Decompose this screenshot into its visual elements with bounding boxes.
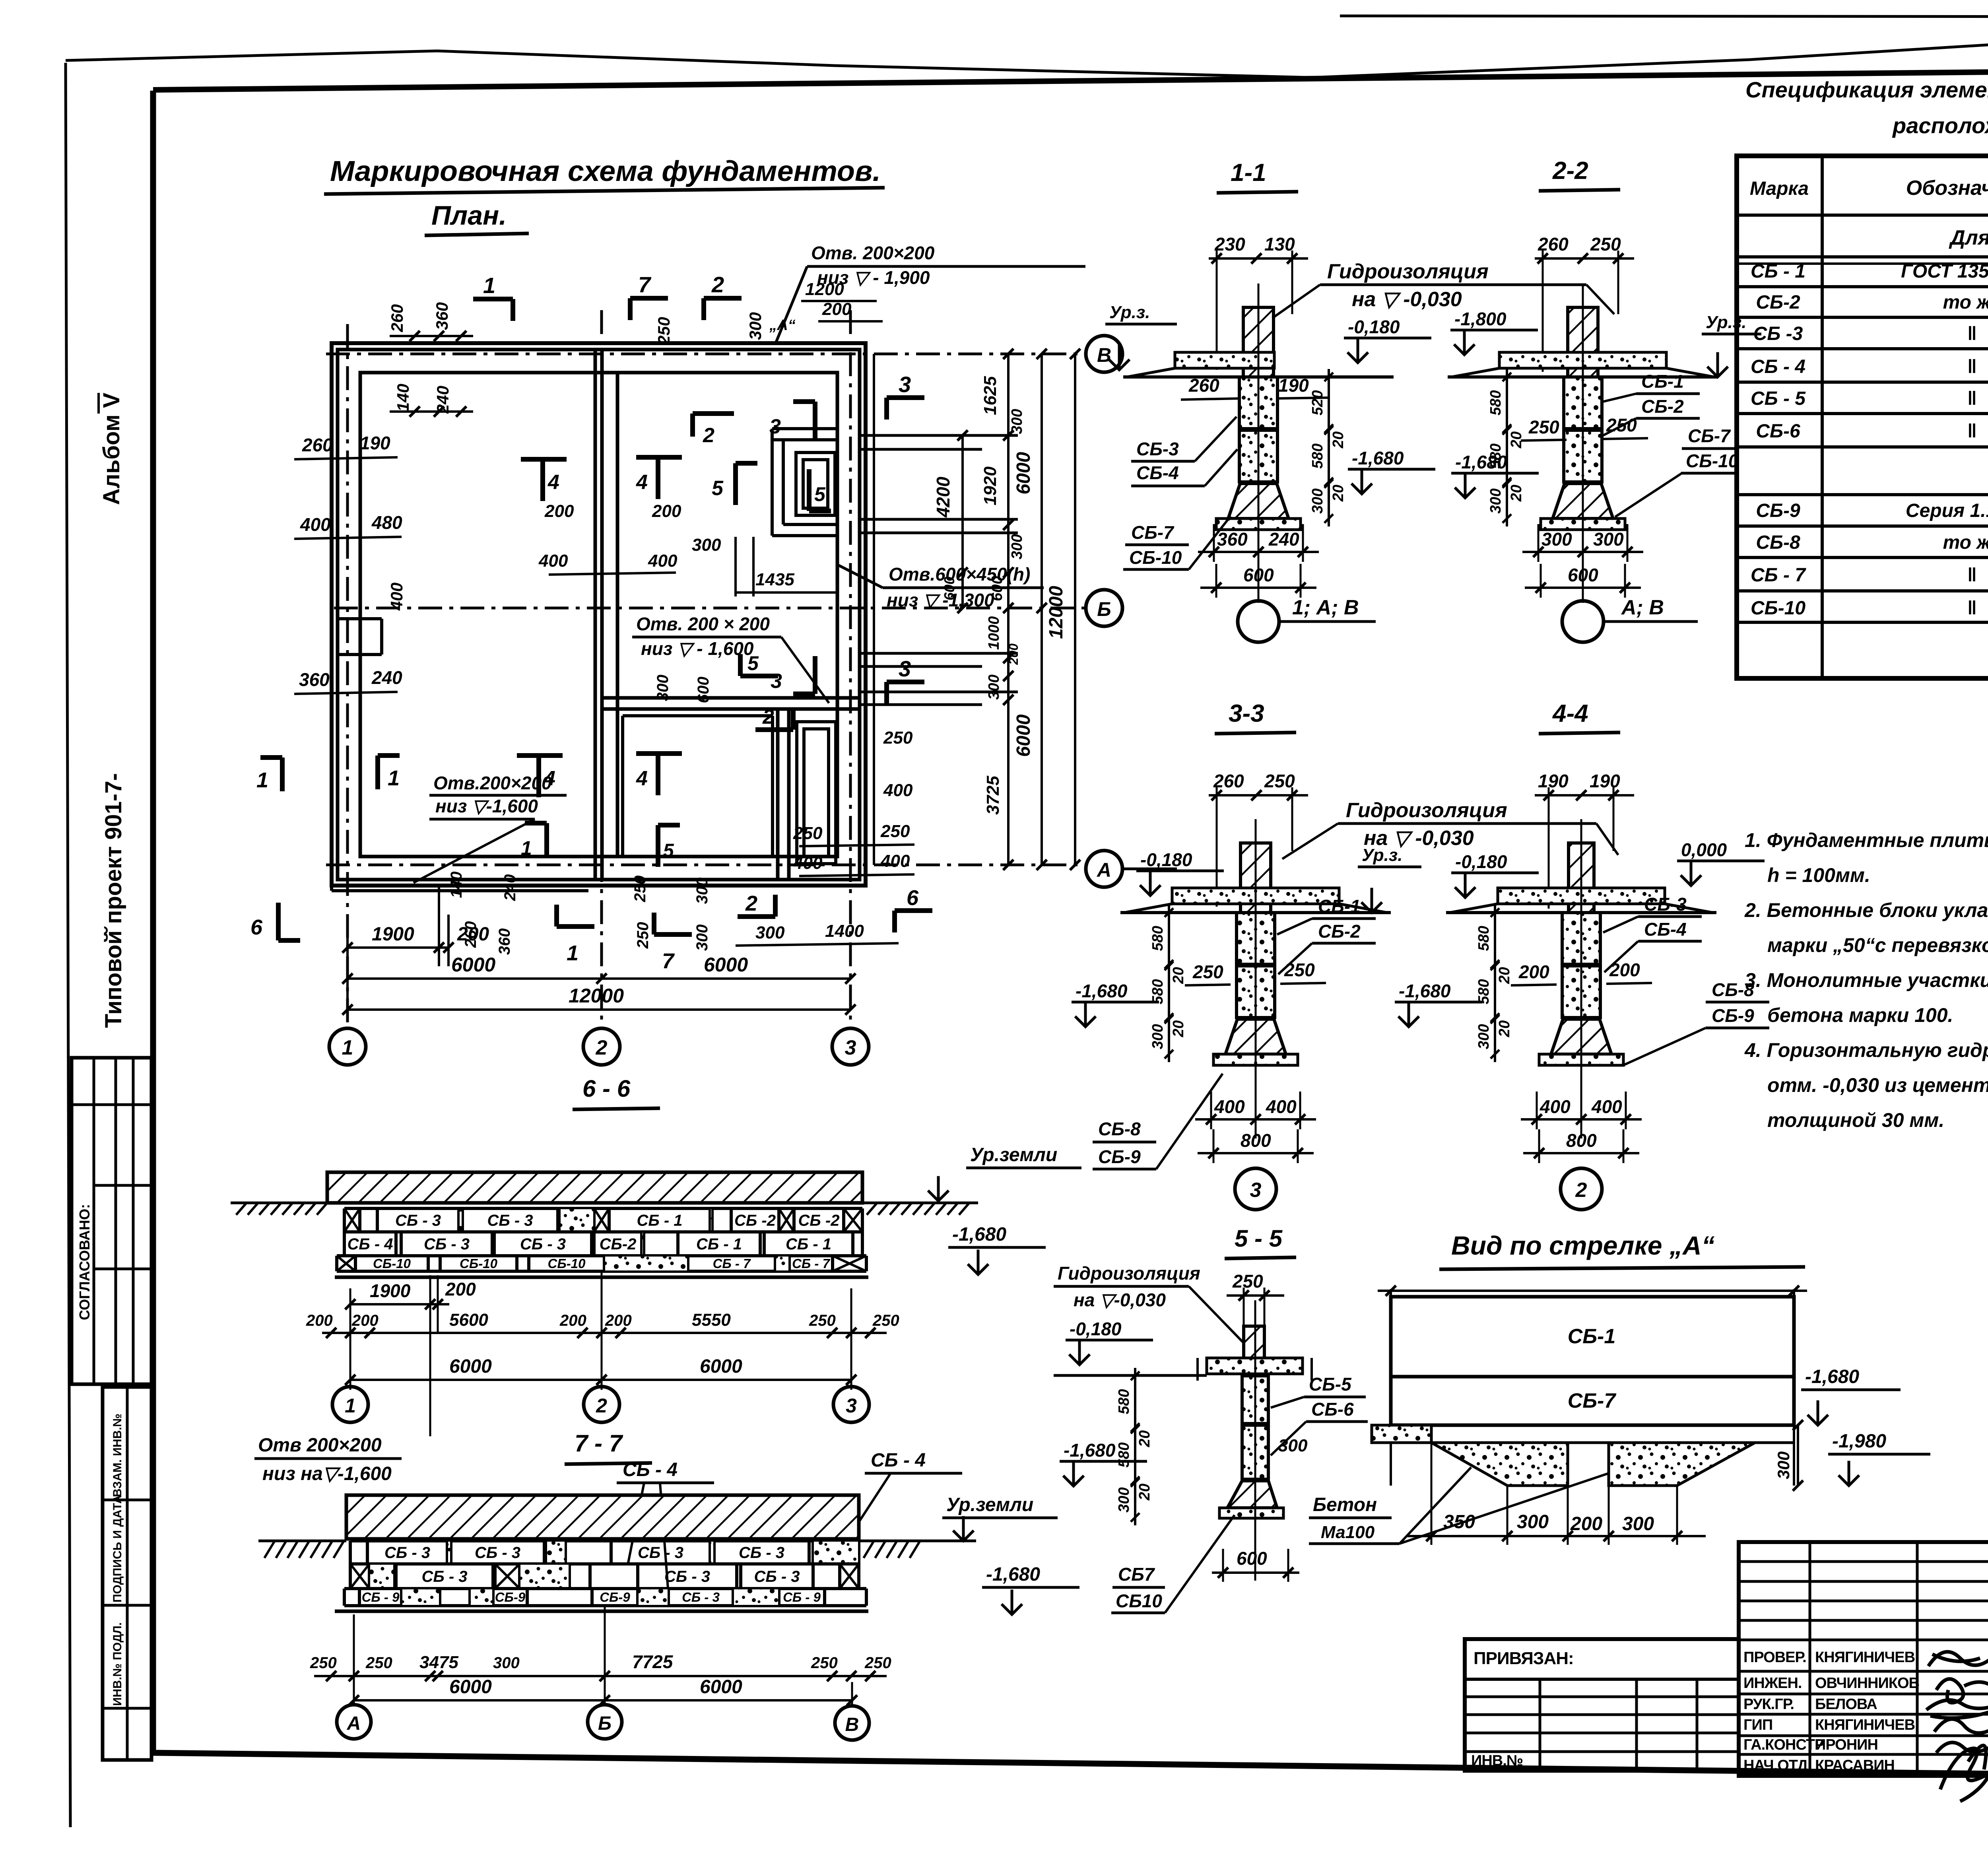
- svg-text:580: 580: [1475, 979, 1492, 1004]
- svg-text:2-2: 2-2: [1552, 157, 1588, 185]
- svg-text:300: 300: [654, 675, 672, 701]
- svg-text:260: 260: [1213, 771, 1244, 791]
- svg-text:Ур.земли: Ур.земли: [970, 1144, 1057, 1165]
- svg-text:СБ - 7: СБ - 7: [713, 1256, 751, 1271]
- svg-text:3725: 3725: [983, 776, 1003, 815]
- svg-text:7: 7: [662, 949, 675, 973]
- svg-text:200: 200: [351, 1312, 379, 1329]
- svg-text:3: 3: [769, 415, 781, 438]
- svg-text:1. Фундаментные плиты уложить: 1. Фундаментные плиты уложить на песчану…: [1745, 829, 1988, 851]
- title block: privyazan box: [1465, 1639, 1739, 1771]
- svg-text:250: 250: [1232, 1271, 1263, 1292]
- svg-text:300: 300: [1475, 1024, 1492, 1049]
- svg-text:400: 400: [1540, 1096, 1571, 1117]
- svg-text:300: 300: [746, 312, 765, 340]
- section 4-4 bottom dims: [1521, 1118, 1642, 1121]
- marker 6 left bottom: [276, 903, 281, 940]
- svg-text:300: 300: [1009, 409, 1025, 434]
- svg-text:‖: ‖: [1967, 598, 1977, 619]
- svg-text:20: 20: [1496, 1020, 1513, 1037]
- plan axis line A horizontal: [326, 864, 1086, 866]
- plan right dim 6000 6000: [1041, 354, 1043, 865]
- svg-text:‖: ‖: [1967, 323, 1977, 344]
- paper scan edge top: [1340, 16, 1988, 17]
- svg-text:7: 7: [638, 272, 652, 297]
- svg-text:то же: то же: [1943, 292, 1988, 313]
- plan bottom-left step: [332, 889, 588, 892]
- svg-text:4: 4: [636, 471, 648, 494]
- svg-text:СБ-10: СБ-10: [1751, 598, 1806, 619]
- svg-text:низ ▽ - 1,600: низ ▽ - 1,600: [641, 638, 754, 659]
- svg-text:3: 3: [846, 1395, 857, 1417]
- plan axis line 3: [849, 310, 852, 1028]
- svg-text:250: 250: [1264, 771, 1295, 791]
- marker 2 mid inside: [755, 727, 793, 732]
- svg-text:2: 2: [745, 892, 757, 915]
- svg-text:СБ - 3: СБ - 3: [395, 1212, 441, 1230]
- svg-text:580: 580: [1487, 443, 1504, 468]
- svg-text:СБ-9: СБ-9: [1712, 1005, 1754, 1026]
- svg-text:Отв. 200 × 200: Отв. 200 × 200: [636, 614, 770, 634]
- svg-text:Маркировочная схема фундаменто: Маркировочная схема фундаментов.: [330, 155, 881, 187]
- svg-text:на ▽ -0,030: на ▽ -0,030: [1352, 288, 1462, 311]
- svg-text:СБ-8: СБ-8: [1756, 532, 1800, 553]
- 5-5 footing: [1227, 1481, 1277, 1508]
- svg-text:ИРОНИН: ИРОНИН: [1815, 1737, 1878, 1753]
- svg-text:1900: 1900: [372, 924, 414, 945]
- svg-text:СБ-6: СБ-6: [1311, 1399, 1354, 1420]
- section 3-3 A axis link: [1122, 868, 1177, 870]
- svg-text:5: 5: [712, 477, 724, 500]
- svg-text:3: 3: [771, 670, 782, 693]
- section 3-3 bottom dims: [1195, 1118, 1316, 1121]
- svg-text:СБ-3: СБ-3: [1644, 894, 1687, 915]
- svg-text:СБ - 1: СБ - 1: [637, 1212, 683, 1230]
- svg-text:СБ - 3: СБ - 3: [422, 1568, 468, 1585]
- svg-text:СБ - 4: СБ - 4: [348, 1235, 393, 1253]
- svg-text:3. Монолитные участки между бл: 3. Монолитные участки между блоками выпо…: [1745, 969, 1988, 991]
- svg-text:СБ - 3: СБ - 3: [739, 1544, 784, 1562]
- svg-text:200: 200: [306, 1312, 333, 1329]
- svg-text:200: 200: [559, 1312, 586, 1329]
- 6-6 axis circles: [332, 1387, 368, 1422]
- plan central vertical wall: [594, 350, 597, 880]
- svg-text:Спецификация элементов к марки: Спецификация элементов к маркировочным с…: [1745, 77, 1988, 102]
- svg-text:В: В: [845, 1714, 859, 1735]
- svg-text:800: 800: [1241, 1130, 1271, 1151]
- svg-text:2: 2: [762, 705, 774, 728]
- svg-text:СБ-6: СБ-6: [1756, 421, 1800, 442]
- svg-text:низ ▽ - 1,900: низ ▽ - 1,900: [817, 267, 930, 288]
- plan right dim 4200/600: [961, 435, 964, 608]
- svg-text:-1,680: -1,680: [1352, 448, 1404, 468]
- svg-text:20: 20: [1508, 485, 1525, 502]
- svg-text:1: 1: [256, 768, 268, 792]
- svg-text:250: 250: [1590, 234, 1621, 254]
- section 4-4 column: [1569, 843, 1594, 913]
- view A top dim line: [1378, 1290, 1807, 1292]
- svg-text:СБ-7: СБ-7: [1568, 1389, 1617, 1412]
- svg-text:КНЯГИНИЧЕВ: КНЯГИНИЧЕВ: [1815, 1649, 1915, 1666]
- svg-text:Отв.600×450(h): Отв.600×450(h): [889, 564, 1030, 585]
- svg-text:отм. -0,030 из цементного раст: отм. -0,030 из цементного раствора соста…: [1767, 1074, 1988, 1096]
- section 1-1 column: [1243, 307, 1274, 377]
- svg-text:СБ - 4: СБ - 4: [623, 1459, 678, 1480]
- plan vestibule walls top-right: [772, 427, 837, 430]
- svg-text:6000: 6000: [1013, 714, 1034, 757]
- svg-text:то же: то же: [1943, 532, 1988, 553]
- svg-text:300: 300: [986, 674, 1002, 699]
- svg-text:Ур.з.: Ур.з.: [1706, 313, 1746, 332]
- svg-text:ПОДПИСЬ И ДАТА: ПОДПИСЬ И ДАТА: [111, 1495, 124, 1602]
- svg-text:3: 3: [845, 1036, 856, 1059]
- svg-text:6000: 6000: [700, 1356, 742, 1377]
- svg-text:6000: 6000: [700, 1676, 742, 1698]
- svg-text:СБ-3: СБ-3: [1136, 439, 1179, 459]
- svg-text:250: 250: [809, 1312, 836, 1329]
- section 1-1 right dim chain: [1328, 369, 1330, 526]
- marker 3 top-right inside: [793, 399, 815, 404]
- svg-text:300: 300: [1278, 1436, 1308, 1455]
- title block: signature squiggles: [1928, 1652, 1988, 1666]
- svg-text:СБ - 3: СБ - 3: [424, 1235, 470, 1253]
- svg-text:1920: 1920: [980, 466, 1000, 505]
- svg-text:360: 360: [1217, 529, 1248, 550]
- svg-text:СБ - 4: СБ - 4: [871, 1450, 926, 1471]
- svg-text:1: 1: [567, 941, 579, 965]
- marker 2 top inside: [693, 411, 734, 416]
- markers 1-1 inside plan bottom-left: [260, 755, 282, 760]
- svg-text:6000: 6000: [449, 1676, 492, 1698]
- svg-text:ИНВ.№: ИНВ.№: [1471, 1752, 1523, 1769]
- svg-text:СБ-4: СБ-4: [1644, 919, 1687, 940]
- svg-text:-1,680: -1,680: [1064, 1440, 1116, 1461]
- svg-text:400: 400: [793, 853, 823, 873]
- svg-text:360: 360: [433, 302, 451, 330]
- markers 5 inside plan: [733, 463, 738, 505]
- svg-text:580: 580: [1149, 979, 1166, 1004]
- svg-text:580: 580: [1487, 390, 1504, 415]
- svg-text:Отв.200×200: Отв.200×200: [433, 773, 552, 793]
- svg-text:-1,680: -1,680: [1076, 981, 1128, 1001]
- svg-text:КНЯГИНИЧЕВ: КНЯГИНИЧЕВ: [1815, 1717, 1915, 1733]
- 6-6 dims 1900 200: [350, 1303, 449, 1305]
- svg-text:СБ -2: СБ -2: [734, 1212, 776, 1230]
- svg-text:300: 300: [1309, 488, 1326, 513]
- section 2-2 column: [1568, 307, 1598, 377]
- svg-text:12000: 12000: [1046, 586, 1067, 639]
- plan top section markers 1 7 2: [473, 297, 513, 301]
- svg-text:СБ-1: СБ-1: [1318, 896, 1361, 917]
- svg-text:Отв 200×200: Отв 200×200: [258, 1435, 382, 1456]
- view A big blocks: [1391, 1297, 1794, 1377]
- 5-5 ground line: [1054, 1374, 1207, 1377]
- svg-text:Для t°= -30 °С: Для t°= -30 °С: [1949, 226, 1988, 249]
- marker 6 right bottom: [895, 908, 932, 913]
- svg-text:260: 260: [302, 435, 333, 455]
- svg-text:3-3: 3-3: [1229, 700, 1264, 727]
- svg-text:толщиной 30 мм.: толщиной 30 мм.: [1767, 1109, 1944, 1131]
- svg-text:-1,680: -1,680: [1805, 1366, 1859, 1387]
- svg-text:5550: 5550: [692, 1310, 731, 1330]
- 6-6 block row 3: [337, 1254, 866, 1257]
- section 1-1 top dims 230 130: [1209, 257, 1308, 260]
- svg-text:6 - 6: 6 - 6: [582, 1075, 631, 1102]
- svg-text:140: 140: [448, 872, 465, 898]
- section 3-3 top dims 260 250: [1209, 794, 1308, 796]
- svg-text:300: 300: [1116, 1487, 1132, 1512]
- svg-text:1400: 1400: [825, 921, 864, 941]
- section 2-2 left dim chain: [1506, 369, 1508, 526]
- svg-text:240: 240: [1268, 529, 1299, 550]
- svg-text:7725: 7725: [632, 1651, 674, 1672]
- svg-text:на ▽-0,030: на ▽-0,030: [1074, 1290, 1166, 1310]
- svg-text:260: 260: [462, 921, 480, 948]
- svg-text:600: 600: [1568, 565, 1598, 585]
- svg-text:1: 1: [345, 1395, 356, 1417]
- svg-text:1: 1: [521, 837, 532, 859]
- section 3-3 column: [1241, 843, 1271, 913]
- svg-text:6000: 6000: [449, 1356, 492, 1377]
- svg-text:ОВЧИННИКОВ: ОВЧИННИКОВ: [1815, 1675, 1919, 1692]
- svg-text:250: 250: [793, 824, 823, 843]
- 6-6 wall hatched band: [327, 1172, 862, 1203]
- plan axis line 1: [346, 324, 349, 1028]
- svg-text:СБ - 5: СБ - 5: [1751, 388, 1806, 409]
- svg-text:520: 520: [1309, 390, 1326, 415]
- plan right dim 12000: [1074, 354, 1076, 865]
- svg-text:240: 240: [371, 667, 402, 688]
- svg-text:400: 400: [1591, 1096, 1622, 1117]
- section 4-4 top dims 190 190: [1535, 794, 1634, 796]
- svg-text:СБ - 3: СБ - 3: [754, 1568, 800, 1585]
- section 4-4 axis circle: [1561, 1168, 1602, 1210]
- svg-text:3: 3: [1250, 1179, 1262, 1202]
- 7-7 block row 3: [344, 1587, 866, 1590]
- svg-text:СБ-7: СБ-7: [1688, 425, 1731, 446]
- svg-text:СБ - 7: СБ - 7: [792, 1256, 831, 1271]
- 7-7 ground hatch right: [864, 1541, 874, 1558]
- plan top-left dim lines: [390, 335, 473, 337]
- plan middle horizontal wall: [602, 696, 860, 700]
- plan axis circles 1 2 3: [329, 1028, 366, 1065]
- plan outer wall second line: [338, 350, 860, 880]
- svg-text:h = 100мм.: h = 100мм.: [1767, 864, 1870, 886]
- svg-text:3: 3: [899, 372, 911, 397]
- svg-text:3: 3: [899, 656, 911, 681]
- svg-text:200: 200: [1570, 1513, 1602, 1535]
- plan dim chain below: 6000+6000: [346, 948, 349, 1010]
- svg-text:200: 200: [652, 501, 681, 521]
- svg-text:580: 580: [1116, 1442, 1132, 1467]
- svg-text:СБ-10: СБ-10: [1686, 451, 1739, 471]
- svg-text:СБ-2: СБ-2: [1318, 921, 1361, 942]
- table frame: [1737, 156, 1988, 678]
- svg-text:РУК.ГР.: РУК.ГР.: [1743, 1696, 1794, 1713]
- svg-text:4: 4: [547, 471, 559, 494]
- svg-text:1: 1: [342, 1036, 353, 1059]
- 7-7 wall hatched band: [346, 1495, 859, 1539]
- svg-text:-0,180: -0,180: [1348, 317, 1400, 337]
- svg-text:5600: 5600: [449, 1310, 488, 1330]
- svg-text:ИНВ.№ ПОДЛ.: ИНВ.№ ПОДЛ.: [111, 1622, 124, 1706]
- svg-text:300: 300: [1517, 1511, 1549, 1533]
- svg-text:СБ-10: СБ-10: [373, 1256, 411, 1271]
- svg-text:400: 400: [387, 583, 406, 611]
- 7-7 axis circles А Б В: [337, 1705, 371, 1739]
- svg-text:3475: 3475: [419, 1653, 458, 1672]
- svg-text:130: 130: [1264, 234, 1295, 254]
- svg-text:400: 400: [880, 851, 910, 871]
- svg-text:400: 400: [883, 781, 913, 800]
- table row lines: [1737, 214, 1988, 217]
- svg-text:СБ - 9: СБ - 9: [783, 1590, 821, 1604]
- svg-text:СБ-9: СБ-9: [600, 1590, 630, 1604]
- svg-text:250: 250: [310, 1654, 337, 1672]
- svg-text:Ур.земли: Ур.земли: [946, 1494, 1033, 1515]
- svg-text:КРАСАВИН: КРАСАВИН: [1815, 1757, 1895, 1774]
- svg-text:1900: 1900: [370, 1280, 411, 1301]
- soglasovano box: [72, 1058, 151, 1384]
- svg-text:1625: 1625: [980, 376, 1000, 415]
- svg-text:низ ▽-1,600: низ ▽-1,600: [435, 796, 538, 816]
- svg-text:Серия 1.112 -5: Серия 1.112 -5: [1906, 500, 1988, 521]
- svg-text:250: 250: [365, 1654, 392, 1672]
- svg-text:580: 580: [1309, 443, 1326, 468]
- view A lower band: [1372, 1424, 1391, 1427]
- svg-text:2: 2: [703, 424, 714, 447]
- svg-text:300: 300: [493, 1654, 520, 1672]
- svg-text:250: 250: [880, 822, 910, 841]
- svg-text:20: 20: [1330, 485, 1347, 502]
- svg-text:400: 400: [538, 551, 568, 571]
- svg-text:400: 400: [300, 514, 331, 535]
- plan outer wall inner face: [360, 373, 837, 857]
- 7-7 block row 1: [350, 1539, 859, 1542]
- svg-text:1: 1: [483, 273, 495, 298]
- view A trapezoid 1: [1431, 1443, 1568, 1486]
- section 2-2 top dims 260 250: [1535, 257, 1634, 260]
- svg-text:низ на▽-1,600: низ на▽-1,600: [262, 1463, 392, 1484]
- svg-text:-1,680: -1,680: [986, 1564, 1040, 1585]
- svg-text:300: 300: [1622, 1513, 1654, 1535]
- svg-text:А: А: [1096, 859, 1111, 881]
- title block: signatures grid: [1739, 1542, 1988, 1776]
- 6-6 ground hatch right: [867, 1203, 877, 1215]
- main thick frame: [153, 67, 1988, 90]
- 5-5 left dim chain: [1134, 1368, 1136, 1525]
- svg-text:300: 300: [1541, 529, 1572, 550]
- svg-text:480: 480: [371, 512, 402, 533]
- svg-text:Альбом V: Альбом V: [99, 392, 124, 505]
- svg-text:СБ -2: СБ -2: [798, 1212, 840, 1230]
- svg-text:План.: План.: [431, 200, 507, 231]
- plan niche left wall: [338, 617, 382, 620]
- svg-text:200: 200: [544, 501, 574, 521]
- svg-text:‖: ‖: [1967, 356, 1977, 377]
- svg-text:190: 190: [1590, 771, 1620, 791]
- plan outer wall outer line: [332, 343, 866, 886]
- svg-text:СБ - 3: СБ - 3: [384, 1544, 430, 1562]
- svg-text:250: 250: [654, 317, 673, 345]
- plan small shaft room: [796, 453, 835, 515]
- svg-text:300: 300: [1149, 1024, 1166, 1049]
- svg-text:300: 300: [1009, 534, 1025, 559]
- svg-text:Б: Б: [598, 1713, 612, 1734]
- svg-text:250: 250: [1192, 961, 1223, 982]
- svg-text:7 - 7: 7 - 7: [575, 1430, 623, 1457]
- svg-text:200: 200: [1518, 961, 1549, 982]
- svg-text:СБ-9: СБ-9: [1756, 500, 1800, 521]
- svg-text:Гидроизоляция: Гидроизоляция: [1346, 799, 1507, 822]
- svg-text:СБ - 9: СБ - 9: [362, 1590, 400, 1604]
- svg-text:240: 240: [433, 386, 452, 414]
- svg-text:0,000: 0,000: [1681, 839, 1727, 860]
- svg-text:СБ - 1: СБ - 1: [1751, 261, 1806, 282]
- svg-text:СБ - 3: СБ - 3: [520, 1235, 566, 1253]
- 6-6 dims row: [322, 1332, 887, 1334]
- svg-text:СБ-1: СБ-1: [1641, 371, 1684, 392]
- svg-text:СБ -3: СБ -3: [1753, 323, 1803, 344]
- svg-text:ПРИВЯЗАН:: ПРИВЯЗАН:: [1474, 1649, 1574, 1668]
- view A dims 350 300 200 300: [1408, 1535, 1706, 1537]
- svg-text:1; А; В: 1; А; В: [1292, 596, 1359, 619]
- svg-text:190: 190: [1538, 771, 1569, 791]
- svg-text:Гидроизоляция: Гидроизоляция: [1058, 1263, 1200, 1284]
- svg-text:600: 600: [695, 677, 712, 703]
- svg-text:5: 5: [663, 840, 674, 861]
- svg-text:СБ - 1: СБ - 1: [786, 1235, 831, 1253]
- svg-text:Вид по стрелке „А“: Вид по стрелке „А“: [1451, 1231, 1715, 1260]
- svg-text:В: В: [1097, 344, 1111, 366]
- svg-text:СБ - 1: СБ - 1: [696, 1235, 742, 1253]
- markers 4 upper inside plan: [521, 457, 567, 462]
- section 2-2 axis circle: [1562, 601, 1604, 642]
- svg-text:-0,180: -0,180: [1070, 1319, 1122, 1339]
- svg-text:20: 20: [1508, 431, 1525, 449]
- bottom sidebar cells: [103, 1387, 151, 1760]
- svg-text:190: 190: [1278, 375, 1309, 396]
- svg-text:ГОСТ 13579 -78: ГОСТ 13579 -78: [1901, 261, 1988, 282]
- plan axis line B horizontal: [326, 353, 1086, 355]
- svg-text:300: 300: [693, 925, 711, 951]
- 6-6 block row 2: [344, 1230, 862, 1233]
- svg-text:4200: 4200: [933, 476, 953, 518]
- svg-text:ВЗАМ. ИНВ.№: ВЗАМ. ИНВ.№: [111, 1414, 124, 1497]
- svg-text:580: 580: [1475, 926, 1492, 951]
- svg-text:400: 400: [648, 551, 678, 571]
- svg-text:СБ10: СБ10: [1116, 1591, 1162, 1611]
- plan dim chain below: 12000: [348, 1008, 850, 1011]
- svg-text:СБ - 7: СБ - 7: [1751, 565, 1806, 586]
- svg-text:5: 5: [814, 483, 826, 505]
- svg-text:1000: 1000: [986, 616, 1002, 650]
- svg-text:СБ - 3: СБ - 3: [475, 1544, 520, 1562]
- svg-text:230: 230: [1214, 234, 1245, 254]
- 6-6 dims 6000 6000: [350, 1379, 851, 1381]
- svg-text:250: 250: [1528, 417, 1559, 437]
- 5-5 column top hatch: [1244, 1326, 1264, 1374]
- svg-text:20: 20: [1136, 1484, 1153, 1501]
- svg-text:расположенным на листе.: расположенным на листе.: [1892, 113, 1988, 138]
- svg-text:СБ-1: СБ-1: [1568, 1325, 1616, 1348]
- svg-text:2: 2: [596, 1036, 608, 1059]
- 5-5 slab band: [1207, 1358, 1303, 1374]
- section 3-3 axis circle: [1235, 1168, 1276, 1210]
- svg-text:260: 260: [1188, 375, 1219, 396]
- markers 3 right of plan: [887, 395, 924, 400]
- svg-text:СБ-2: СБ-2: [1641, 396, 1684, 417]
